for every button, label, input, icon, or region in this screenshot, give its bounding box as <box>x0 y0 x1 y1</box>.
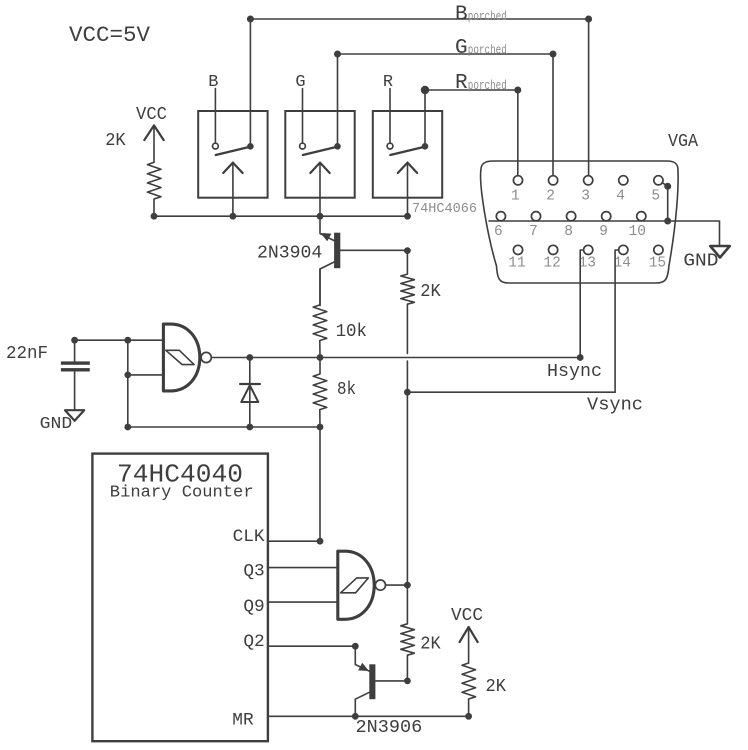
pin 5 <box>651 176 663 205</box>
pin 2 <box>546 176 558 205</box>
svg-text:12: 12 <box>543 256 560 272</box>
label VCC (right pull-up) <box>451 606 483 626</box>
wire pin 14 to Vsync <box>615 250 619 392</box>
svg-text:R: R <box>383 73 393 92</box>
resistor 2K (left pull-up) <box>147 162 161 216</box>
svg-text:Binary Counter: Binary Counter <box>110 483 254 502</box>
switch B (74HC4066) <box>198 89 267 217</box>
svg-text:2: 2 <box>546 189 555 205</box>
label VCC (left pull-up) <box>136 105 167 125</box>
pin Q9 <box>243 597 337 617</box>
transistor Q1 2N3904 <box>320 216 407 305</box>
svg-text:G: G <box>455 37 468 60</box>
op-amp U1 NAND Schmitt gate <box>163 324 211 391</box>
svg-text:5: 5 <box>651 189 660 205</box>
svg-text:Vsync: Vsync <box>587 395 643 415</box>
label 2K (upper right) <box>420 282 441 302</box>
label B <box>208 73 218 92</box>
svg-text:2K: 2K <box>420 282 441 302</box>
label Gporched <box>455 37 507 60</box>
label Hsync <box>547 362 602 382</box>
label 74HC4040 <box>117 459 243 489</box>
pin CLK <box>233 527 324 547</box>
svg-text:G: G <box>295 73 305 92</box>
wire Rporched net <box>421 86 522 176</box>
power VCC arrow (right) <box>460 627 478 663</box>
svg-text:6: 6 <box>494 224 503 240</box>
svg-text:B: B <box>208 73 218 92</box>
wire 8k node to CLK <box>319 427 321 541</box>
label 2K (right pull-up) <box>486 677 507 697</box>
svg-text:VCC=5V: VCC=5V <box>69 23 151 48</box>
label Vsync <box>587 395 643 415</box>
svg-text:MR: MR <box>232 711 254 731</box>
wire pin 13 to Hsync <box>580 250 583 358</box>
svg-text:2K: 2K <box>420 635 441 655</box>
pin 11 <box>508 245 525 271</box>
resistor 2K (right pull-up) <box>462 663 476 716</box>
connector VGA shell <box>481 161 679 283</box>
svg-text:8: 8 <box>564 224 573 240</box>
pin Q2 <box>243 632 358 652</box>
resistor 8k <box>313 358 327 428</box>
wire Vsync line <box>404 389 615 396</box>
wire Gporched net <box>334 51 557 176</box>
label 74HC4066 <box>412 202 477 217</box>
svg-text:Q9: Q9 <box>243 597 264 617</box>
capacitor 22nF <box>61 337 90 410</box>
svg-text:3: 3 <box>581 189 590 205</box>
svg-text:2K: 2K <box>486 677 507 697</box>
svg-text:1: 1 <box>511 189 520 205</box>
op-amp U2 NAND Schmitt gate <box>338 551 386 619</box>
pin 13 <box>579 245 596 271</box>
svg-text:Hsync: Hsync <box>547 362 602 382</box>
diode D1 <box>240 358 260 428</box>
svg-text:11: 11 <box>508 256 525 272</box>
pin 1 <box>511 176 523 205</box>
svg-text:porched: porched <box>468 43 507 57</box>
svg-text:74HC4066: 74HC4066 <box>412 202 477 217</box>
label G <box>295 73 305 92</box>
label GND (22nF) <box>40 414 73 433</box>
pin 10 <box>629 212 646 240</box>
svg-text:Q3: Q3 <box>243 561 264 581</box>
svg-text:13: 13 <box>579 256 596 272</box>
resistor 10k <box>313 269 327 358</box>
label 2K (U2 output pull) <box>420 635 441 655</box>
label VGA <box>668 132 698 152</box>
wire feedback line <box>128 424 324 431</box>
label 2K (left pull-up) <box>105 131 126 151</box>
svg-text:2N3904: 2N3904 <box>257 243 322 263</box>
pin 7 <box>529 212 541 240</box>
wire U2 output <box>386 582 411 589</box>
label 2N3904 <box>257 243 322 263</box>
wire Hsync line <box>211 354 583 361</box>
power VCC arrow (left) <box>144 125 163 162</box>
svg-text:porched: porched <box>468 79 507 93</box>
svg-text:2N3906: 2N3906 <box>356 718 423 738</box>
svg-text:VCC: VCC <box>451 606 483 626</box>
chip 74HC4040 box <box>92 454 268 742</box>
svg-text:VGA: VGA <box>668 132 698 152</box>
wire Bporched net <box>247 16 592 176</box>
svg-text:B: B <box>455 4 468 27</box>
label Rporched <box>455 72 507 95</box>
pin 12 <box>543 245 560 271</box>
transistor Q2 2N3906 <box>355 646 407 716</box>
svg-text:2K: 2K <box>105 131 126 151</box>
wire 22nF to gate inputs <box>75 337 132 431</box>
svg-text:15: 15 <box>649 256 666 272</box>
switch G (74HC4066) <box>285 89 354 217</box>
pin Q3 <box>243 561 337 581</box>
resistor 2K (U2 output pull) <box>401 585 415 684</box>
svg-text:7: 7 <box>529 224 538 240</box>
pin 14 <box>614 245 631 271</box>
label VCC=5V <box>69 23 151 48</box>
pin 9 <box>599 212 611 240</box>
switch R (74HC4066) <box>373 89 442 217</box>
svg-text:GND: GND <box>683 251 718 272</box>
pin 8 <box>564 212 576 240</box>
svg-text:porched: porched <box>468 10 507 24</box>
svg-text:R: R <box>455 72 468 95</box>
svg-text:22nF: 22nF <box>6 344 48 364</box>
svg-text:8k: 8k <box>337 380 356 400</box>
ground VGA <box>710 246 730 258</box>
label 8k <box>337 380 356 400</box>
svg-text:10k: 10k <box>336 322 367 342</box>
svg-text:GND: GND <box>40 414 73 433</box>
pin 4 <box>616 176 628 205</box>
pin 15 <box>649 245 666 271</box>
svg-text:9: 9 <box>599 224 608 240</box>
wire VGA ground bus (pins 6-10 row) <box>489 218 720 247</box>
svg-text:14: 14 <box>614 256 631 272</box>
resistor 2K (collector pull, upper right) <box>401 247 415 392</box>
svg-text:10: 10 <box>629 224 646 240</box>
pin MR <box>232 711 472 731</box>
svg-text:CLK: CLK <box>233 527 265 547</box>
pin 3 <box>581 176 593 205</box>
label 2N3906 <box>356 718 423 738</box>
label R <box>383 73 393 92</box>
svg-text:VCC: VCC <box>136 105 167 125</box>
svg-text:4: 4 <box>616 189 625 205</box>
svg-text:Q2: Q2 <box>243 632 264 652</box>
wire pin 5 to ground bus <box>663 183 671 221</box>
label Binary Counter <box>110 483 254 502</box>
wire gate U1 input stubs <box>128 340 163 375</box>
label 22nF <box>6 344 48 364</box>
wire Vsync column <box>406 392 408 585</box>
label 10k <box>336 322 367 342</box>
wire control bus <box>151 213 411 220</box>
ground (22nF) <box>65 410 84 421</box>
pin 6 <box>494 212 506 240</box>
label GND (VGA) <box>683 251 718 272</box>
label Bporched <box>455 4 507 27</box>
